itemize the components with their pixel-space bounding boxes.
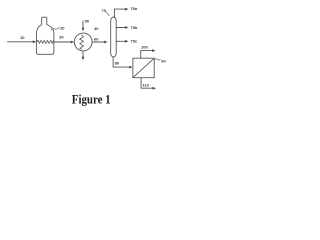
svg-text:30: 30 bbox=[59, 35, 64, 40]
svg-text:10: 10 bbox=[20, 35, 25, 40]
svg-text:90: 90 bbox=[161, 58, 166, 63]
svg-text:20: 20 bbox=[60, 25, 65, 30]
svg-text:75b: 75b bbox=[130, 25, 137, 30]
svg-text:70: 70 bbox=[102, 8, 107, 13]
svg-text:60: 60 bbox=[94, 36, 99, 41]
svg-text:100: 100 bbox=[141, 44, 148, 49]
svg-text:75c: 75c bbox=[130, 39, 137, 44]
svg-text:110: 110 bbox=[142, 83, 149, 88]
svg-text:40: 40 bbox=[94, 26, 99, 31]
svg-text:50: 50 bbox=[85, 19, 90, 24]
svg-text:80: 80 bbox=[115, 61, 120, 66]
svg-text:Figure 1: Figure 1 bbox=[72, 93, 111, 107]
svg-text:75a: 75a bbox=[130, 6, 137, 11]
